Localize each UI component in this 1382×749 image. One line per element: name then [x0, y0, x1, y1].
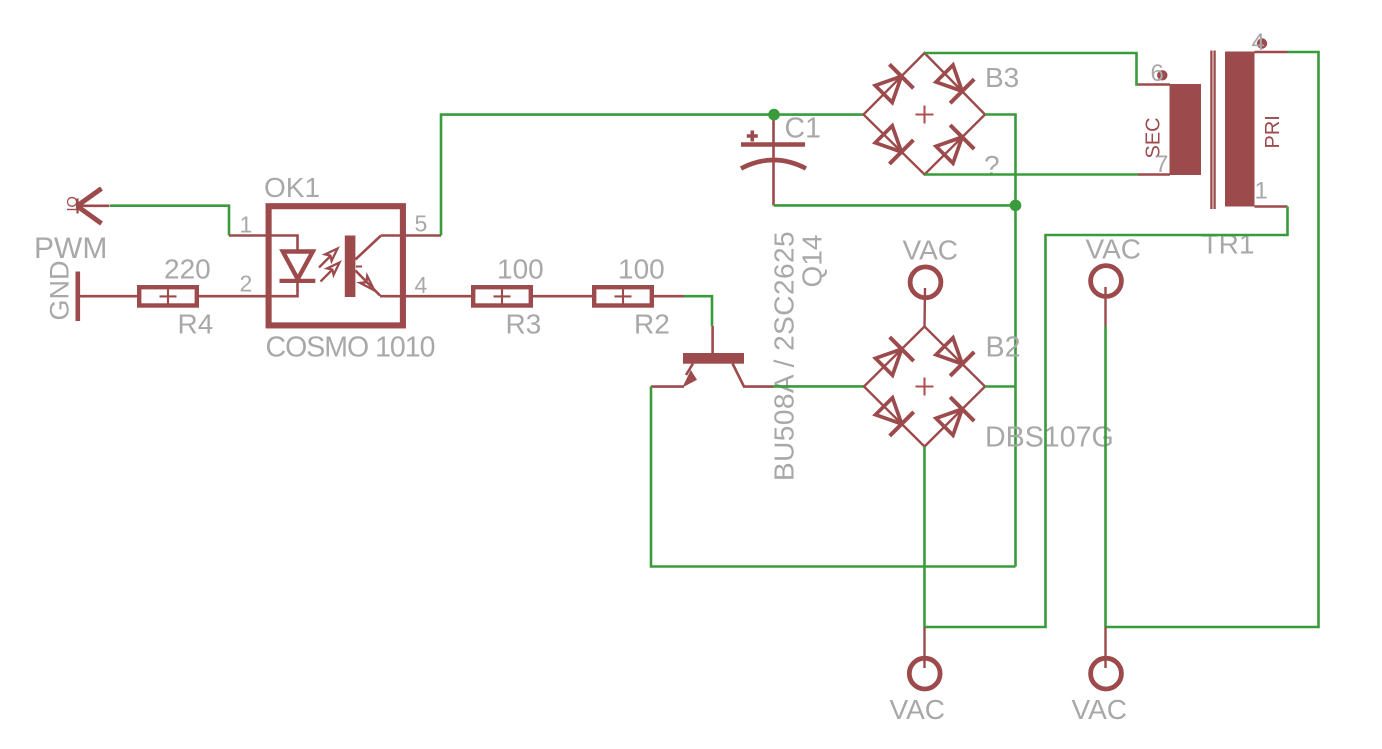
- transformer TR1 primary winding PRI: [1225, 52, 1255, 207]
- polarity dot pin 4: [1257, 38, 1267, 48]
- svg-text:R2: R2: [634, 309, 670, 340]
- svg-text:COSMO 1010: COSMO 1010: [266, 332, 435, 364]
- transformer TR1 secondary winding SEC: [1170, 84, 1202, 175]
- svg-text:VAC: VAC: [1072, 694, 1128, 725]
- svg-text:BU508A / 2SC2625: BU508A / 2SC2625: [769, 231, 800, 481]
- wire VAC top-left to B2 top: [923, 288, 926, 327]
- wire R3 to R2: [532, 295, 592, 298]
- svg-text:1: 1: [1255, 178, 1268, 205]
- optocoupler OK1 box: [269, 206, 403, 325]
- svg-text:VAC: VAC: [903, 235, 959, 266]
- svg-text:PRI: PRI: [1262, 115, 1284, 148]
- svg-text:C1: C1: [785, 113, 821, 145]
- wire VAC bottom-left stub: [923, 627, 925, 668]
- svg-text:5: 5: [415, 210, 428, 236]
- svg-text:220: 220: [164, 254, 211, 285]
- wire GND to resistor R4: [80, 295, 137, 298]
- wire SEC pin 7 stub: [1138, 173, 1170, 176]
- capacitor C1: [741, 115, 806, 206]
- wire net F: TR1 pin1 down-left to bottom VAC row: [925, 207, 1288, 628]
- diode B3 bottom-right: [932, 125, 974, 167]
- resistor R3: [473, 287, 531, 305]
- svg-text:GND: GND: [45, 261, 75, 321]
- wire OK1 pin 1 stub: [229, 234, 269, 237]
- wire OK1 pin 4 to resistor R3: [380, 295, 471, 298]
- diode B2 top-right: [932, 334, 974, 376]
- pin circle VAC top-right: [1091, 266, 1122, 297]
- diode B2 top-left: [872, 337, 914, 379]
- wire net D: B3 bottom to SEC pin 7: [925, 173, 1139, 176]
- light arrows inside OK1: [319, 249, 340, 282]
- svg-text:Q14: Q14: [797, 235, 828, 288]
- wire R2 right stub: [653, 295, 684, 298]
- transistor Q14: [651, 326, 773, 388]
- resistor R4: [139, 287, 197, 305]
- svg-text:B2: B2: [986, 332, 1021, 364]
- wire B2 right corner to net B rail: [985, 385, 1016, 388]
- svg-text:R4: R4: [178, 309, 214, 340]
- svg-text:PWM: PWM: [34, 232, 107, 265]
- diode B2 bottom-left: [872, 394, 914, 436]
- svg-text:7: 7: [1155, 151, 1168, 178]
- resistor R2: [594, 287, 652, 305]
- svg-text:1: 1: [240, 212, 253, 238]
- svg-text:VAC: VAC: [1086, 234, 1142, 265]
- svg-text:4: 4: [415, 272, 428, 298]
- wire net R2 to Q14 base: [684, 296, 712, 326]
- diode B3 top-right: [932, 61, 974, 103]
- pin circle VAC bottom-left: [909, 658, 940, 689]
- svg-text:DBS107G: DBS107G: [985, 422, 1114, 454]
- wire VAC top-right stub: [1104, 287, 1106, 326]
- diode B3 bottom-left: [872, 122, 914, 164]
- wire Q14 collector to bridge B2: [773, 385, 864, 388]
- svg-text:100: 100: [618, 254, 665, 285]
- wire net C: B3 top to SEC pin 6: [925, 53, 1139, 85]
- pin circle VAC bottom-right: [1091, 658, 1122, 689]
- wire VAC bottom-right stub: [1104, 627, 1106, 668]
- wire net B: B3 right corner down to rail: [985, 115, 1016, 567]
- svg-text:B3: B3: [985, 62, 1019, 93]
- wire C1 bottom to net B: [774, 204, 1016, 207]
- junction dot on net B: [1010, 200, 1022, 212]
- plus mark B2: [916, 378, 934, 396]
- wire R4 to OK1 pin 2: [199, 295, 269, 298]
- LED inside OK1: [268, 236, 315, 297]
- diode B2 bottom-right: [932, 397, 974, 439]
- wire net E: TR1 pin4 right and down to bottom VAC row: [1106, 52, 1319, 627]
- diode B3 top-left: [872, 64, 914, 106]
- wire net PWM: arrow to OK1 pin 1: [110, 206, 229, 236]
- wire TR1 pin 1 stub: [1255, 205, 1288, 208]
- wire TR1 pin 4 stub: [1255, 51, 1288, 54]
- plus mark B3: [916, 106, 934, 124]
- svg-text:R3: R3: [506, 309, 542, 340]
- svg-text:100: 100: [497, 254, 544, 285]
- wire SEC pin 6 stub: [1138, 83, 1170, 86]
- svg-text:?: ?: [984, 150, 1000, 181]
- bridge rectifier B2 diamond: [864, 327, 985, 447]
- svg-text:OK1: OK1: [264, 172, 320, 203]
- svg-text:VAC: VAC: [890, 694, 946, 725]
- bridge rectifier B3 diamond: [864, 53, 986, 175]
- wire OK1 pin 5 stub: [381, 234, 441, 237]
- svg-text:TR1: TR1: [1202, 229, 1255, 260]
- svg-text:2: 2: [240, 271, 253, 297]
- svg-text:IO: IO: [65, 196, 81, 211]
- junction dot at C1 top: [768, 109, 780, 121]
- phototransistor inside OK1: [345, 236, 381, 298]
- ground symbol GND: [76, 272, 81, 322]
- pin circle VAC top-left: [910, 267, 941, 298]
- polarity dot pin 6: [1157, 70, 1167, 80]
- wire net from OK1 pin5 up to C1/B3 row: [441, 115, 864, 236]
- wire B2 bottom corner down: [923, 447, 926, 628]
- pin connector IO (input arrow): [76, 189, 110, 224]
- wire net E branch: VAC top-right down: [1104, 326, 1107, 627]
- wire Q14 emitter net down-right to common rail: [651, 386, 1016, 566]
- svg-text:6: 6: [1151, 60, 1164, 87]
- transformer TR1 core: [1211, 51, 1214, 210]
